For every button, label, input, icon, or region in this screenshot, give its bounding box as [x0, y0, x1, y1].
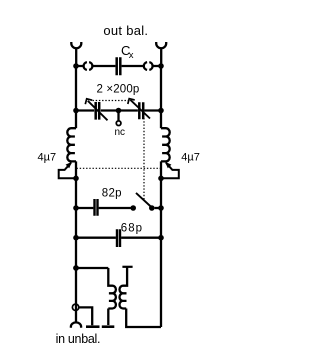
tap L1 [59, 163, 76, 179]
arrow C-tune-left [88, 101, 108, 121]
node nc stub [117, 111, 119, 121]
connector left [84, 62, 93, 70]
svg-text:nc: nc [115, 127, 126, 138]
connector right [144, 62, 153, 70]
terminal in unbal [71, 322, 81, 327]
svg-text:2 ×200p: 2 ×200p [97, 83, 140, 95]
ground input [86, 325, 100, 328]
capacitor C-tune-right [139, 102, 143, 119]
junction tap-left [73, 176, 79, 182]
transformer T1 secondary [120, 267, 162, 327]
capacitor Cx [117, 57, 121, 75]
junction 68p-left [73, 235, 79, 241]
terminal out left [71, 42, 81, 65]
gang link dotted taps [77, 167, 161, 169]
capacitor C-tune-left [96, 102, 100, 120]
inductor L2 [161, 128, 170, 161]
junction top-right [158, 63, 164, 69]
junction tune-mid [116, 108, 122, 114]
wire right rail mid [160, 161, 162, 327]
wire input-row [76, 267, 108, 269]
inductor L1 [67, 128, 76, 161]
junction tune-right [158, 108, 164, 114]
terminal out right [156, 42, 166, 65]
tap L2 [161, 163, 179, 179]
junction input-row [73, 265, 79, 271]
gang link dotted caps [93, 100, 129, 102]
switch S1 [130, 205, 136, 211]
terminal T1 secondary top [122, 266, 132, 268]
svg-text:4µ7: 4µ7 [38, 151, 57, 163]
capacitor 82p [76, 207, 131, 209]
junction tune-left [73, 108, 79, 114]
wire left rail mid [75, 161, 77, 322]
gang link dotted switch [143, 118, 145, 199]
junction 82p-left [73, 205, 79, 211]
svg-text:82p: 82p [102, 187, 122, 199]
svg-text:out bal.: out bal. [103, 23, 148, 38]
junction top-left [73, 63, 79, 69]
junction 82p-right [158, 205, 164, 211]
svg-text:4µ7: 4µ7 [181, 151, 200, 163]
wire ring to ground [79, 307, 92, 325]
transformer T1 primary [108, 268, 116, 325]
connector input ring [72, 304, 78, 310]
capacitor 68p [76, 237, 161, 239]
junction tap-right [158, 176, 164, 182]
svg-text:68p: 68p [121, 223, 143, 235]
svg-text:in unbal.: in unbal. [56, 332, 101, 346]
arrow C-tune-right [130, 100, 150, 119]
wire right rail upper [160, 66, 162, 128]
wire left rail upper [75, 66, 77, 128]
wire tuning row [76, 109, 161, 111]
ground T1 primary [102, 325, 115, 328]
svg-text:x: x [129, 50, 134, 61]
label Cx [121, 43, 134, 61]
wire top row [76, 65, 161, 67]
junction 68p-right [158, 235, 164, 241]
